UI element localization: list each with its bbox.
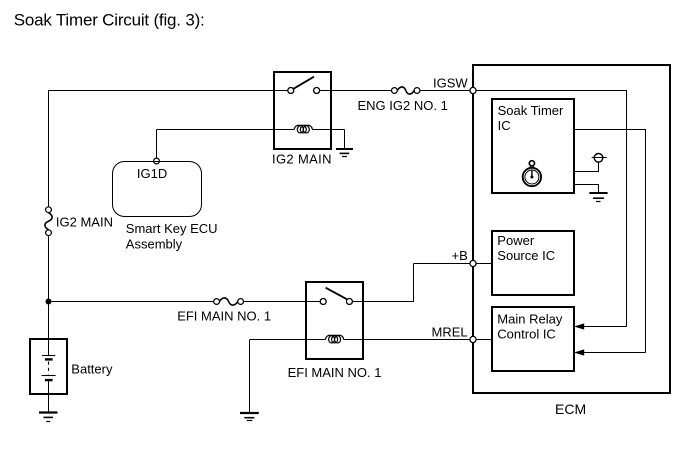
svg-text:IGSW: IGSW xyxy=(433,75,468,90)
svg-text:EFI MAIN NO. 1: EFI MAIN NO. 1 xyxy=(177,309,271,324)
relay IG2 MAIN switch xyxy=(274,77,331,94)
ECM box xyxy=(473,65,670,393)
svg-text:Main Relay: Main Relay xyxy=(497,312,563,327)
wire: battery to ground xyxy=(48,394,50,413)
wire: MREL into Main Relay Control IC xyxy=(476,339,492,341)
Power Source IC box xyxy=(492,231,574,295)
wire: left vertical from top corner to fuse xyxy=(48,90,50,207)
svg-text:Source IC: Source IC xyxy=(497,248,555,263)
svg-text:Soak Timer Circuit (fig. 3):: Soak Timer Circuit (fig. 3): xyxy=(14,11,205,30)
terminal circle with bar xyxy=(592,154,607,163)
relay EFI MAIN NO. 1 box xyxy=(306,282,363,359)
wire: IG1D vertical xyxy=(156,130,158,159)
label Power Source IC xyxy=(497,233,555,263)
svg-text:Battery: Battery xyxy=(71,361,113,376)
svg-text:IG2 MAIN: IG2 MAIN xyxy=(56,214,113,229)
wire: Soak Timer IC stub to ground xyxy=(574,185,599,194)
wire: Soak Timer IC output to arrow xyxy=(574,130,646,353)
stopwatch icon xyxy=(523,161,541,187)
node MREL terminal xyxy=(470,336,476,342)
smart key ECU assembly box xyxy=(113,162,202,217)
svg-text:IG2 MAIN: IG2 MAIN xyxy=(272,152,332,167)
wire: fuse to IGSW node xyxy=(420,90,470,92)
node IGSW terminal xyxy=(470,87,476,93)
wire: fuse to relay EFI xyxy=(244,301,307,303)
relay IG2 MAIN coil xyxy=(274,125,331,133)
wire: top horizontal IG2 feed xyxy=(49,90,275,92)
svg-text:Soak Timer: Soak Timer xyxy=(498,103,564,118)
wire: relay EFI coil right to MREL xyxy=(363,339,470,341)
svg-text:Assembly: Assembly xyxy=(126,237,183,252)
wire: left vertical from fuse to battery xyxy=(48,236,50,339)
wire: relay IG2 coil right to ground xyxy=(331,130,345,150)
wire: IGSW internal run xyxy=(476,91,627,327)
fuse EFI MAIN NO. 1 xyxy=(214,298,244,305)
label Soak Timer IC xyxy=(498,103,564,133)
node +B terminal xyxy=(470,260,476,266)
battery cells xyxy=(42,339,56,394)
wire: relay EFI coil left to ground xyxy=(250,340,307,414)
label Main Relay Control IC xyxy=(497,312,563,342)
ground (battery) xyxy=(39,413,58,422)
wire: relay EFI switch out, up to +B xyxy=(363,264,470,302)
svg-text:MREL: MREL xyxy=(432,325,468,340)
svg-text:ENG IG2 NO. 1: ENG IG2 NO. 1 xyxy=(358,98,448,113)
svg-text:Control IC: Control IC xyxy=(497,327,556,342)
ground (EFI coil) xyxy=(240,413,259,421)
wire: Soak Timer IC stub to terminal xyxy=(574,162,599,171)
wire: +B into Power Source IC xyxy=(476,263,492,265)
wire: relay coil left to IG1D corner xyxy=(157,129,275,131)
wire: EFI MAIN feed from junction xyxy=(49,301,214,303)
arrow into Main Relay Control IC (from IGSW) xyxy=(574,323,584,329)
relay EFI coil xyxy=(306,335,363,343)
svg-text:Smart Key ECU: Smart Key ECU xyxy=(126,221,218,236)
svg-text:IG1D: IG1D xyxy=(137,166,167,181)
Soak Timer IC box xyxy=(492,99,574,193)
svg-text:Power: Power xyxy=(497,233,535,248)
label Smart Key ECU Assembly xyxy=(126,221,218,251)
svg-text:IC: IC xyxy=(498,118,511,133)
ground (Soak Timer) xyxy=(589,193,607,202)
terminal IG1D xyxy=(154,158,160,164)
wire: relay IG2 switch out to fuse xyxy=(331,90,391,92)
ground (IG2 MAIN coil) xyxy=(336,149,353,157)
node junction (battery / EFI feed) xyxy=(46,299,52,305)
svg-text:+B: +B xyxy=(452,248,468,263)
relay IG2 MAIN box xyxy=(274,72,331,149)
Main Relay Control IC box xyxy=(492,307,574,371)
svg-text:EFI MAIN NO. 1: EFI MAIN NO. 1 xyxy=(288,365,382,380)
battery box xyxy=(30,339,67,394)
fuse ENG IG2 NO. 1 xyxy=(392,87,420,94)
fuse IG2 MAIN xyxy=(45,207,52,236)
arrow into Main Relay Control IC (from Soak Timer IC) xyxy=(574,349,584,355)
relay EFI switch xyxy=(306,288,363,305)
svg-text:ECM: ECM xyxy=(555,401,586,417)
